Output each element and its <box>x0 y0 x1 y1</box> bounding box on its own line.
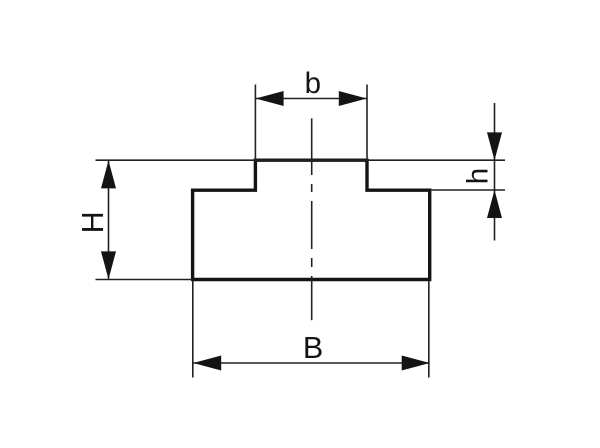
extension line right shoulder (h) <box>430 189 505 191</box>
svg-text:H: H <box>76 211 110 233</box>
extension line bottom-left (H) <box>96 279 193 281</box>
dimension line B <box>193 362 430 364</box>
T-profile outline <box>193 160 430 279</box>
arrowhead H up <box>101 160 116 188</box>
svg-text:h: h <box>462 168 495 184</box>
extension line B right <box>428 281 430 378</box>
extension line b right <box>366 85 368 161</box>
arrowhead b right <box>339 91 367 106</box>
extension line b left <box>254 85 256 161</box>
arrowhead H down <box>101 251 116 279</box>
arrowhead b left <box>256 91 284 106</box>
svg-text:B: B <box>303 331 323 365</box>
arrowhead h upper (points down) <box>487 132 502 160</box>
extension line B left <box>192 281 194 378</box>
centerline (vertical dash-dot axis) <box>311 118 313 320</box>
svg-text:b: b <box>305 67 321 100</box>
extension line top (shared by H and h) <box>96 159 506 161</box>
arrowhead B left <box>193 356 221 371</box>
dimension line b <box>255 98 367 100</box>
arrowhead B right <box>402 356 430 371</box>
arrowhead h lower (points up) <box>487 190 502 218</box>
dimension line h <box>494 103 496 241</box>
dimension line H <box>108 160 110 279</box>
